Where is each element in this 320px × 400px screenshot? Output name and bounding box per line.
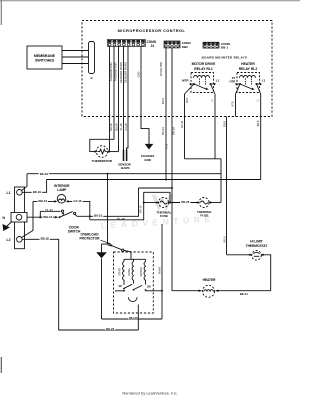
- svg-text:MOTOR: MOTOR: [140, 267, 143, 276]
- svg-text:DOOR MTR: DOOR MTR: [159, 62, 163, 76]
- svg-text:WH-13: WH-13: [43, 215, 52, 219]
- L1 riser to line1: [22, 159, 261, 203]
- wire label BK-19 on line1: [39, 172, 49, 175]
- svg-text:MEMBRANE: MEMBRANE: [34, 54, 56, 58]
- svg-text:HTR: HTR: [232, 101, 235, 106]
- L2 bottom run: [22, 239, 138, 330]
- svg-text:BK-6: BK-6: [256, 120, 260, 126]
- line1 L1 bus: [27, 159, 221, 174]
- relay RL2 contacts: [236, 83, 241, 85]
- svg-text:L1: L1: [262, 78, 266, 82]
- sensor bar 1: [123, 150, 125, 162]
- watermark: [101, 195, 215, 231]
- svg-text:PROTECTOR: PROTECTOR: [80, 237, 101, 241]
- motor feed drop: [107, 174, 109, 244]
- sensor bar 2: [126, 150, 128, 162]
- hi-limit wire from microprocessor box: [226, 117, 228, 255]
- svg-text:HEATER: HEATER: [241, 62, 255, 66]
- motor winding top bus: [124, 258, 146, 260]
- wire label WH-12: [38, 199, 48, 202]
- svg-text:BARS: BARS: [121, 166, 130, 170]
- svg-text:GND: GND: [144, 158, 152, 162]
- inter-fuse line: [169, 202, 200, 204]
- DB2-1 drop to motor: [161, 224, 163, 319]
- terminal N with box: [11, 213, 27, 223]
- svg-text:BU-29: BU-29: [115, 123, 119, 131]
- svg-text:SWITCH: SWITCH: [68, 230, 81, 234]
- connector DB2: [164, 41, 180, 48]
- wire label BK-19 on L1 lead: [32, 190, 42, 193]
- L1 lead to line2: [22, 180, 46, 193]
- wire RL1 MTR drop: [184, 94, 186, 159]
- svg-text:YL-28: YL-28: [119, 123, 123, 130]
- svg-text:THERMISTOR: THERMISTOR: [109, 62, 113, 81]
- main winding: [144, 259, 146, 284]
- svg-text:BOARD MOUNTED RELAYS: BOARD MOUNTED RELAYS: [202, 55, 248, 59]
- start winding: [123, 259, 125, 285]
- N stub to lamp contact line: [39, 211, 41, 217]
- connector J2: [89, 42, 95, 74]
- connector J4: [107, 40, 145, 47]
- svg-text:MOTOR DRIVE: MOTOR DRIVE: [192, 62, 217, 66]
- lamp contact line YL-14: [40, 210, 60, 212]
- riser L2 line into motor: [137, 305, 139, 331]
- junction dot DB2-1/line2: [165, 179, 167, 181]
- motor dashed box: [114, 252, 154, 313]
- terminal block: [15, 187, 25, 249]
- svg-text:HTR: HTR: [229, 80, 235, 84]
- terminal L1: [17, 190, 23, 196]
- svg-text:J4: J4: [151, 44, 155, 48]
- svg-text:GY-10: GY-10: [74, 199, 82, 203]
- svg-text:YL-14: YL-14: [45, 208, 53, 212]
- svg-text:RELAY RL1: RELAY RL1: [194, 67, 213, 71]
- svg-text:BK-19: BK-19: [33, 190, 42, 194]
- page frame artifacts: [0, 0, 300, 2]
- svg-text:START: START: [119, 268, 122, 276]
- svg-text:BU-10: BU-10: [94, 214, 103, 218]
- L2 lead to lamp riser: [22, 201, 90, 237]
- svg-text:DB-1: DB-1: [221, 45, 228, 49]
- svg-text:BU-24: BU-24: [161, 127, 165, 135]
- chassis ground symbol: [145, 144, 154, 150]
- svg-text:THERMISTOR: THERMISTOR: [92, 159, 113, 163]
- svg-text:Rendered by LeadVenture, Inc.: Rendered by LeadVenture, Inc.: [122, 391, 177, 396]
- J4 wire 5 (sensor bar 2): [127, 46, 129, 149]
- relay RL1 coil: [194, 76, 210, 78]
- svg-text:BN-10: BN-10: [139, 205, 143, 213]
- microprocessor control dashed box: [82, 21, 272, 117]
- svg-text:BK-19: BK-19: [40, 172, 49, 176]
- svg-text:YL-10: YL-10: [117, 217, 125, 221]
- wire RL1 L1 drop: [214, 94, 216, 159]
- drive winding: [132, 259, 134, 283]
- svg-text:DB2: DB2: [182, 45, 188, 49]
- riser line1 to fuse2: [220, 174, 222, 203]
- wire RL2 HTR stub: [235, 94, 237, 117]
- wire label WH-13: [43, 215, 53, 218]
- junction dot line1/motor drop: [107, 173, 109, 175]
- svg-text:RELAY RL2: RELAY RL2: [239, 67, 258, 71]
- ground at motor: [102, 244, 108, 319]
- wires membrane to J2: [62, 51, 89, 64]
- svg-text:BU-3: BU-3: [161, 97, 165, 103]
- switch output line A: [77, 188, 139, 216]
- svg-text:SENSOR BARS: SENSOR BARS: [119, 62, 123, 83]
- fuse 1 feed: [144, 202, 157, 204]
- svg-text:L1: L1: [216, 78, 220, 82]
- svg-text:MTR: MTR: [186, 98, 189, 103]
- line RL1/DB1 link: [185, 158, 222, 160]
- svg-text:GND: GND: [136, 71, 140, 77]
- svg-text:DRIVE: DRIVE: [128, 268, 131, 276]
- svg-text:WH-6: WH-6: [157, 266, 161, 273]
- svg-text:FUSE: FUSE: [200, 214, 208, 218]
- svg-text:GY-25: GY-25: [180, 120, 184, 128]
- svg-text:RD-18: RD-18: [41, 237, 50, 241]
- svg-text:L2: L2: [7, 238, 11, 242]
- svg-text:THERMOSTAT: THERMOSTAT: [246, 244, 268, 248]
- svg-text:SENSOR BARS: SENSOR BARS: [124, 62, 128, 83]
- thermal fuse 2: [199, 198, 209, 208]
- neutral ground arrow: [7, 222, 12, 227]
- svg-text:J2: J2: [90, 76, 94, 80]
- svg-text:WH-23: WH-23: [129, 316, 138, 320]
- DB2 wire 2 (heater feed): [171, 48, 173, 291]
- svg-text:LAMP: LAMP: [57, 188, 67, 192]
- svg-text:BK-11: BK-11: [240, 292, 248, 296]
- svg-text:L1: L1: [7, 191, 11, 195]
- svg-text:SWITCHES: SWITCHES: [35, 59, 55, 63]
- svg-text:RD-29: RD-29: [109, 123, 113, 131]
- J4 wire 3 (sensor bar feed): [118, 46, 120, 151]
- svg-text:RD-5: RD-5: [222, 236, 226, 243]
- svg-text:WH-12: WH-12: [38, 199, 47, 203]
- J4 wire 2 (thermistor return): [90, 46, 114, 151]
- motor neutral bottom line: [102, 318, 163, 320]
- relay RL1 contacts: [190, 83, 195, 85]
- line2 RL2 bus: [47, 179, 261, 181]
- line B to fuse junction drop: [144, 192, 170, 202]
- svg-text:MICROPROCESSOR CONTROL: MICROPROCESSOR CONTROL: [118, 29, 186, 33]
- svg-text:BK-23: BK-23: [106, 327, 115, 331]
- overload protector: [108, 243, 131, 259]
- lamp/switch line B: [90, 192, 144, 220]
- lamp return line: [67, 201, 90, 219]
- svg-text:2M: 2M: [147, 286, 150, 289]
- wire label GY-10 (lamp return): [72, 199, 82, 202]
- J4 wire 4 (sensor bar 1): [123, 46, 125, 149]
- J4 wire 6 (chassis gnd): [141, 46, 149, 144]
- door switch: [60, 210, 78, 217]
- svg-text:MTR: MTR: [182, 78, 189, 82]
- svg-text:YL-3: YL-3: [164, 143, 168, 149]
- N line to door switch common: [27, 216, 56, 218]
- DB2 wire 1: [165, 48, 167, 180]
- terminal L2: [17, 237, 23, 243]
- svg-text:1M: 1M: [118, 285, 121, 288]
- centrifugal switch: [115, 284, 162, 301]
- membrane switches box: [27, 46, 62, 69]
- fuse 2 output to line1 riser: [209, 202, 221, 204]
- thermal fuse 1: [159, 198, 169, 208]
- thermistor: [96, 146, 108, 158]
- svg-text:RD-5: RD-5: [222, 120, 226, 127]
- connector DB-1: [203, 42, 219, 48]
- wire RL2 L1 drop to line2: [260, 94, 262, 180]
- svg-text:RD-24: RD-24: [171, 127, 175, 135]
- lamp feed line: [33, 200, 56, 202]
- J4 wire 1 (thermistor): [109, 46, 111, 151]
- svg-text:OR-25: OR-25: [181, 200, 190, 204]
- svg-text:THERMISTOR: THERMISTOR: [114, 62, 118, 81]
- line A to heater drop: [139, 187, 173, 189]
- svg-text:FUSE: FUSE: [160, 214, 168, 218]
- svg-text:HEATER: HEATER: [203, 278, 217, 282]
- relay RL2 coil: [240, 76, 256, 78]
